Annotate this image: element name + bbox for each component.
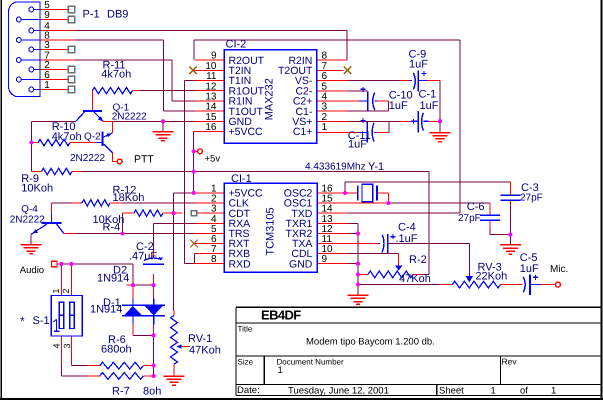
svg-text:RV-1: RV-1 bbox=[188, 333, 212, 345]
svg-text:1uF: 1uF bbox=[520, 263, 539, 275]
svg-text:.1uF: .1uF bbox=[396, 233, 418, 245]
svg-text:Tuesday, June 12, 2001: Tuesday, June 12, 2001 bbox=[288, 385, 389, 396]
svg-text:R-2: R-2 bbox=[409, 254, 427, 266]
svg-text:C-4: C-4 bbox=[398, 222, 416, 234]
svg-text:2: 2 bbox=[61, 288, 71, 293]
svg-text:47Koh: 47Koh bbox=[189, 345, 221, 357]
svg-text:4k7oh: 4k7oh bbox=[101, 69, 131, 81]
svg-text:+5VCC: +5VCC bbox=[229, 126, 264, 138]
svg-text:8: 8 bbox=[211, 254, 217, 265]
svg-text:Q-2: Q-2 bbox=[84, 132, 101, 143]
svg-text:CI-2: CI-2 bbox=[226, 39, 247, 51]
svg-text:C-6: C-6 bbox=[467, 201, 485, 213]
svg-text:1uF: 1uF bbox=[420, 100, 439, 112]
svg-text:Mic.: Mic. bbox=[550, 264, 568, 275]
svg-text:10Koh: 10Koh bbox=[21, 183, 53, 195]
svg-text:1: 1 bbox=[491, 385, 496, 396]
svg-text:1N914: 1N914 bbox=[97, 273, 129, 285]
svg-text:22Koh: 22Koh bbox=[475, 270, 507, 282]
svg-text:R-4: R-4 bbox=[103, 222, 121, 234]
svg-text:+5v: +5v bbox=[205, 153, 221, 164]
svg-text:1: 1 bbox=[322, 122, 328, 133]
svg-text:of: of bbox=[520, 385, 528, 396]
svg-text:1: 1 bbox=[551, 385, 556, 396]
svg-text:Y-1: Y-1 bbox=[368, 161, 384, 173]
svg-text:4.433619Mhz: 4.433619Mhz bbox=[305, 162, 366, 173]
svg-text:Rev: Rev bbox=[502, 356, 518, 366]
svg-text:Title: Title bbox=[238, 325, 253, 334]
svg-text:Modem tipo Baycom 1.200 db.: Modem tipo Baycom 1.200 db. bbox=[306, 336, 435, 347]
svg-text:DB9: DB9 bbox=[107, 9, 128, 21]
svg-text:1uF: 1uF bbox=[389, 100, 408, 112]
svg-text:EB4DF: EB4DF bbox=[261, 308, 301, 323]
svg-text:C-1: C-1 bbox=[419, 88, 437, 100]
svg-text:GND: GND bbox=[289, 258, 313, 270]
svg-text:PTT: PTT bbox=[134, 153, 154, 165]
svg-text:Document Number: Document Number bbox=[277, 357, 344, 366]
svg-text:C1+: C1+ bbox=[293, 126, 313, 138]
svg-text:4k7oh: 4k7oh bbox=[52, 131, 82, 143]
svg-text:1: 1 bbox=[278, 365, 283, 376]
svg-text:Size: Size bbox=[238, 358, 254, 367]
svg-text:RXD: RXD bbox=[229, 258, 252, 270]
svg-text:1uF: 1uF bbox=[409, 59, 428, 71]
svg-text:P-1: P-1 bbox=[83, 9, 100, 21]
svg-text:MAX232: MAX232 bbox=[264, 78, 276, 120]
svg-text:18Koh: 18Koh bbox=[113, 192, 145, 204]
svg-text:16: 16 bbox=[205, 122, 217, 133]
svg-text:Audio: Audio bbox=[20, 265, 44, 276]
svg-text:Date:: Date: bbox=[237, 385, 260, 396]
svg-text:2N2222: 2N2222 bbox=[70, 153, 105, 164]
svg-text:.47uF: .47uF bbox=[129, 251, 157, 263]
svg-text:3: 3 bbox=[44, 40, 50, 51]
svg-text:9: 9 bbox=[322, 254, 328, 265]
svg-text:1uF: 1uF bbox=[348, 139, 367, 151]
svg-text:27pF: 27pF bbox=[520, 193, 543, 204]
svg-text:2N2222: 2N2222 bbox=[112, 112, 147, 123]
svg-text:2N2222: 2N2222 bbox=[10, 214, 45, 225]
svg-text:47Koh: 47Koh bbox=[399, 273, 431, 285]
svg-text:8oh: 8oh bbox=[143, 386, 161, 398]
svg-text:4: 4 bbox=[52, 343, 62, 348]
svg-text:27pF: 27pF bbox=[458, 213, 481, 224]
svg-text:3: 3 bbox=[62, 343, 72, 348]
svg-text:CI-1: CI-1 bbox=[231, 173, 252, 185]
svg-text:1: 1 bbox=[44, 80, 50, 91]
svg-text:1: 1 bbox=[51, 288, 61, 293]
svg-text:680oh: 680oh bbox=[101, 344, 132, 356]
svg-text:R-7: R-7 bbox=[112, 386, 130, 398]
svg-text:Sheet: Sheet bbox=[439, 385, 464, 396]
svg-text:S-1: S-1 bbox=[33, 315, 50, 327]
svg-text:*: * bbox=[20, 314, 25, 328]
svg-text:TCM3105: TCM3105 bbox=[265, 207, 277, 255]
svg-text:9: 9 bbox=[44, 10, 50, 21]
svg-text:1N914: 1N914 bbox=[90, 304, 122, 316]
